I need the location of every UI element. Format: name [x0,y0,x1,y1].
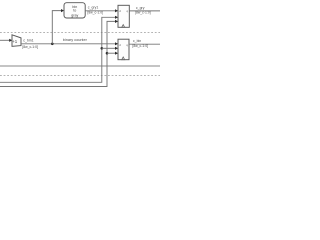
hierarchy boundary dashed top [0,32,160,34]
wire clk branch to c_bin_reg [102,47,117,49]
svg-text:c_gry1: c_gry1 [88,6,99,10]
adder U_plus1 [12,35,21,47]
wire rst branch to c_bin_reg [107,52,117,54]
svg-text:binary counter: binary counter [63,38,88,42]
svg-text:gray: gray [71,14,78,18]
svg-text:+1: +1 [12,39,18,44]
wire c_bin into adder [0,39,11,41]
clock triangle c_gry_reg [122,25,125,28]
svg-text:[8w_c-1:0]: [8w_c-1:0] [22,45,38,49]
wire c_bin1 [21,43,117,45]
block bin2gray [64,3,85,18]
wire feedback to bin2gray [52,11,62,44]
svg-text:[8w_c-1:0]: [8w_c-1:0] [135,11,151,15]
wire c_bin out [129,43,160,45]
clock triangle c_bin_reg [122,57,125,60]
svg-text:[8w_c-1:0]: [8w_c-1:0] [87,11,103,15]
svg-text:[8w_c-1:0]: [8w_c-1:0] [132,44,148,48]
register c_gry_reg [118,5,129,27]
register c_bin_reg [118,39,129,60]
svg-text:to: to [73,9,76,13]
svg-text:c_gry: c_gry [136,6,145,10]
wire c_gry out [129,10,160,12]
wire c_gry1 [85,10,117,12]
horizontal net line [0,65,160,67]
node clk junction [101,47,104,50]
svg-text:c_bin1: c_bin1 [23,38,33,42]
svg-text:c_bin: c_bin [133,39,141,43]
wire clk net [0,17,117,82]
wire rst net [0,21,117,86]
node rst junction [106,52,109,55]
node junction c_bin [51,43,54,46]
hierarchy boundary dashed bottom [0,75,160,77]
